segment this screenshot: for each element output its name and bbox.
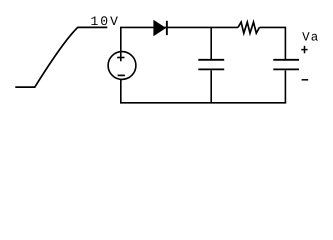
- wire source bottom lead: [120, 80, 122, 103]
- wire resistor to top-right corner down to C2: [259, 27, 285, 59]
- voltage source minus mark: [118, 74, 125, 76]
- capacitor C1 top lead: [210, 27, 212, 59]
- resistor R1: [238, 22, 259, 33]
- label minus (output polarity): [302, 79, 309, 81]
- voltage source V1 circle: [108, 52, 136, 80]
- ramp input waveform sketch: [15, 27, 107, 87]
- wire source top lead and top rail to resistor: [121, 27, 238, 61]
- diode D1: [154, 21, 167, 35]
- svg-text:10V: 10V: [91, 14, 120, 29]
- wire bottom rail: [120, 102, 286, 104]
- voltage source plus mark: [117, 57, 124, 59]
- svg-text:Va: Va: [302, 30, 319, 44]
- capacitor C2 plates: [273, 60, 299, 70]
- capacitor C1 bottom lead: [210, 70, 212, 103]
- capacitor C1 plates: [198, 60, 224, 70]
- capacitor C2 bottom lead: [284, 70, 286, 103]
- label plus (output polarity): [301, 46, 307, 54]
